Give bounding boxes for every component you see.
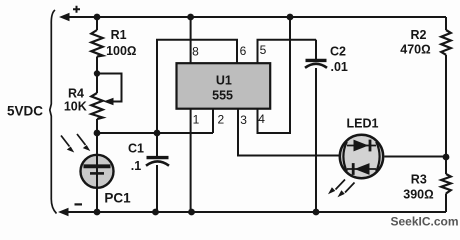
- svg-text:C2: C2: [330, 45, 346, 59]
- svg-text:1: 1: [193, 113, 200, 127]
- capacitor C2: [315, 40, 317, 59]
- PC1 light arrow 2: [77, 134, 90, 151]
- svg-text:2: 2: [217, 112, 224, 126]
- resistor R2: [441, 30, 451, 55]
- node trigger C1: [154, 130, 161, 137]
- node LED R3: [443, 154, 450, 161]
- wire trigger horizontal: [97, 132, 213, 134]
- node bottom C1: [152, 209, 159, 216]
- node trigger R4: [94, 130, 101, 137]
- wire left main vertical top: [96, 17, 98, 30]
- svg-text:SeekIC.com: SeekIC.com: [390, 215, 458, 229]
- minus sign: [75, 203, 83, 205]
- supply arrow +: [59, 13, 70, 21]
- svg-text:.1: .1: [131, 159, 141, 173]
- wire pin6 riser: [157, 40, 237, 133]
- wire right vertical lower: [445, 157, 447, 174]
- svg-text:C1: C1: [128, 142, 144, 156]
- svg-text:555: 555: [212, 89, 233, 103]
- wire right vertical upper: [445, 17, 447, 30]
- svg-text:470Ω: 470Ω: [400, 43, 430, 57]
- LED light arrow 1: [328, 180, 345, 195]
- plus sign: [73, 6, 80, 13]
- svg-text:5: 5: [260, 43, 267, 57]
- wire pin8 riser: [190, 17, 192, 63]
- wire reset riser pin4: [258, 17, 291, 133]
- svg-text:R3: R3: [411, 173, 427, 187]
- wire bottom rail: [66, 211, 446, 213]
- wire pin3 output: [238, 109, 339, 156]
- LED light arrow 2: [338, 183, 355, 198]
- node R4 wiper junction: [94, 70, 100, 76]
- svg-text:LED1: LED1: [347, 117, 379, 131]
- svg-text:R1: R1: [111, 28, 127, 42]
- wire R1 to R4: [96, 57, 98, 94]
- node top pin8: [187, 14, 194, 21]
- svg-text:3: 3: [240, 113, 247, 127]
- wire R4 to junction: [96, 119, 98, 154]
- potentiometer R4: [91, 93, 102, 119]
- svg-text:R4: R4: [68, 87, 84, 101]
- supply arrow -: [58, 208, 69, 216]
- node top reset: [287, 14, 294, 21]
- svg-text:8: 8: [192, 44, 199, 58]
- photocell PC1: [81, 155, 114, 188]
- node bottom pin1: [188, 209, 195, 216]
- 5VDC brace: [50, 10, 57, 214]
- svg-text:390Ω: 390Ω: [403, 188, 433, 202]
- R4 wiper arrowhead: [103, 98, 113, 105]
- capacitor C1: [156, 133, 158, 156]
- wire LED to R3 node: [385, 156, 447, 158]
- wire top rail: [67, 16, 446, 18]
- wire pin5 link to C2: [258, 40, 317, 64]
- op-amp U1 555 timer box: [177, 63, 271, 108]
- node bottom PC1: [94, 209, 101, 216]
- LED1 bicolor: [340, 135, 383, 178]
- node bottom C2: [313, 209, 320, 216]
- PC1 light arrow 1: [61, 136, 74, 153]
- resistor R1: [91, 30, 102, 57]
- wire pin2 drop: [212, 109, 214, 133]
- svg-text:4: 4: [258, 112, 265, 126]
- svg-text:U1: U1: [216, 74, 232, 88]
- resistor R3: [441, 174, 451, 194]
- wire pin1 drop to ground: [190, 109, 192, 212]
- svg-text:PC1: PC1: [104, 190, 131, 205]
- svg-text:6: 6: [240, 44, 247, 58]
- wire right vertical middle: [445, 55, 447, 157]
- wire right vertical bottom: [445, 194, 447, 213]
- svg-text:10K: 10K: [64, 100, 87, 114]
- R4 wiper loop wire: [97, 74, 122, 102]
- node top R1: [94, 14, 101, 21]
- svg-text:R2: R2: [411, 28, 427, 42]
- svg-text:.01: .01: [331, 60, 348, 74]
- svg-text:100Ω: 100Ω: [106, 44, 136, 58]
- svg-text:5VDC: 5VDC: [7, 103, 43, 118]
